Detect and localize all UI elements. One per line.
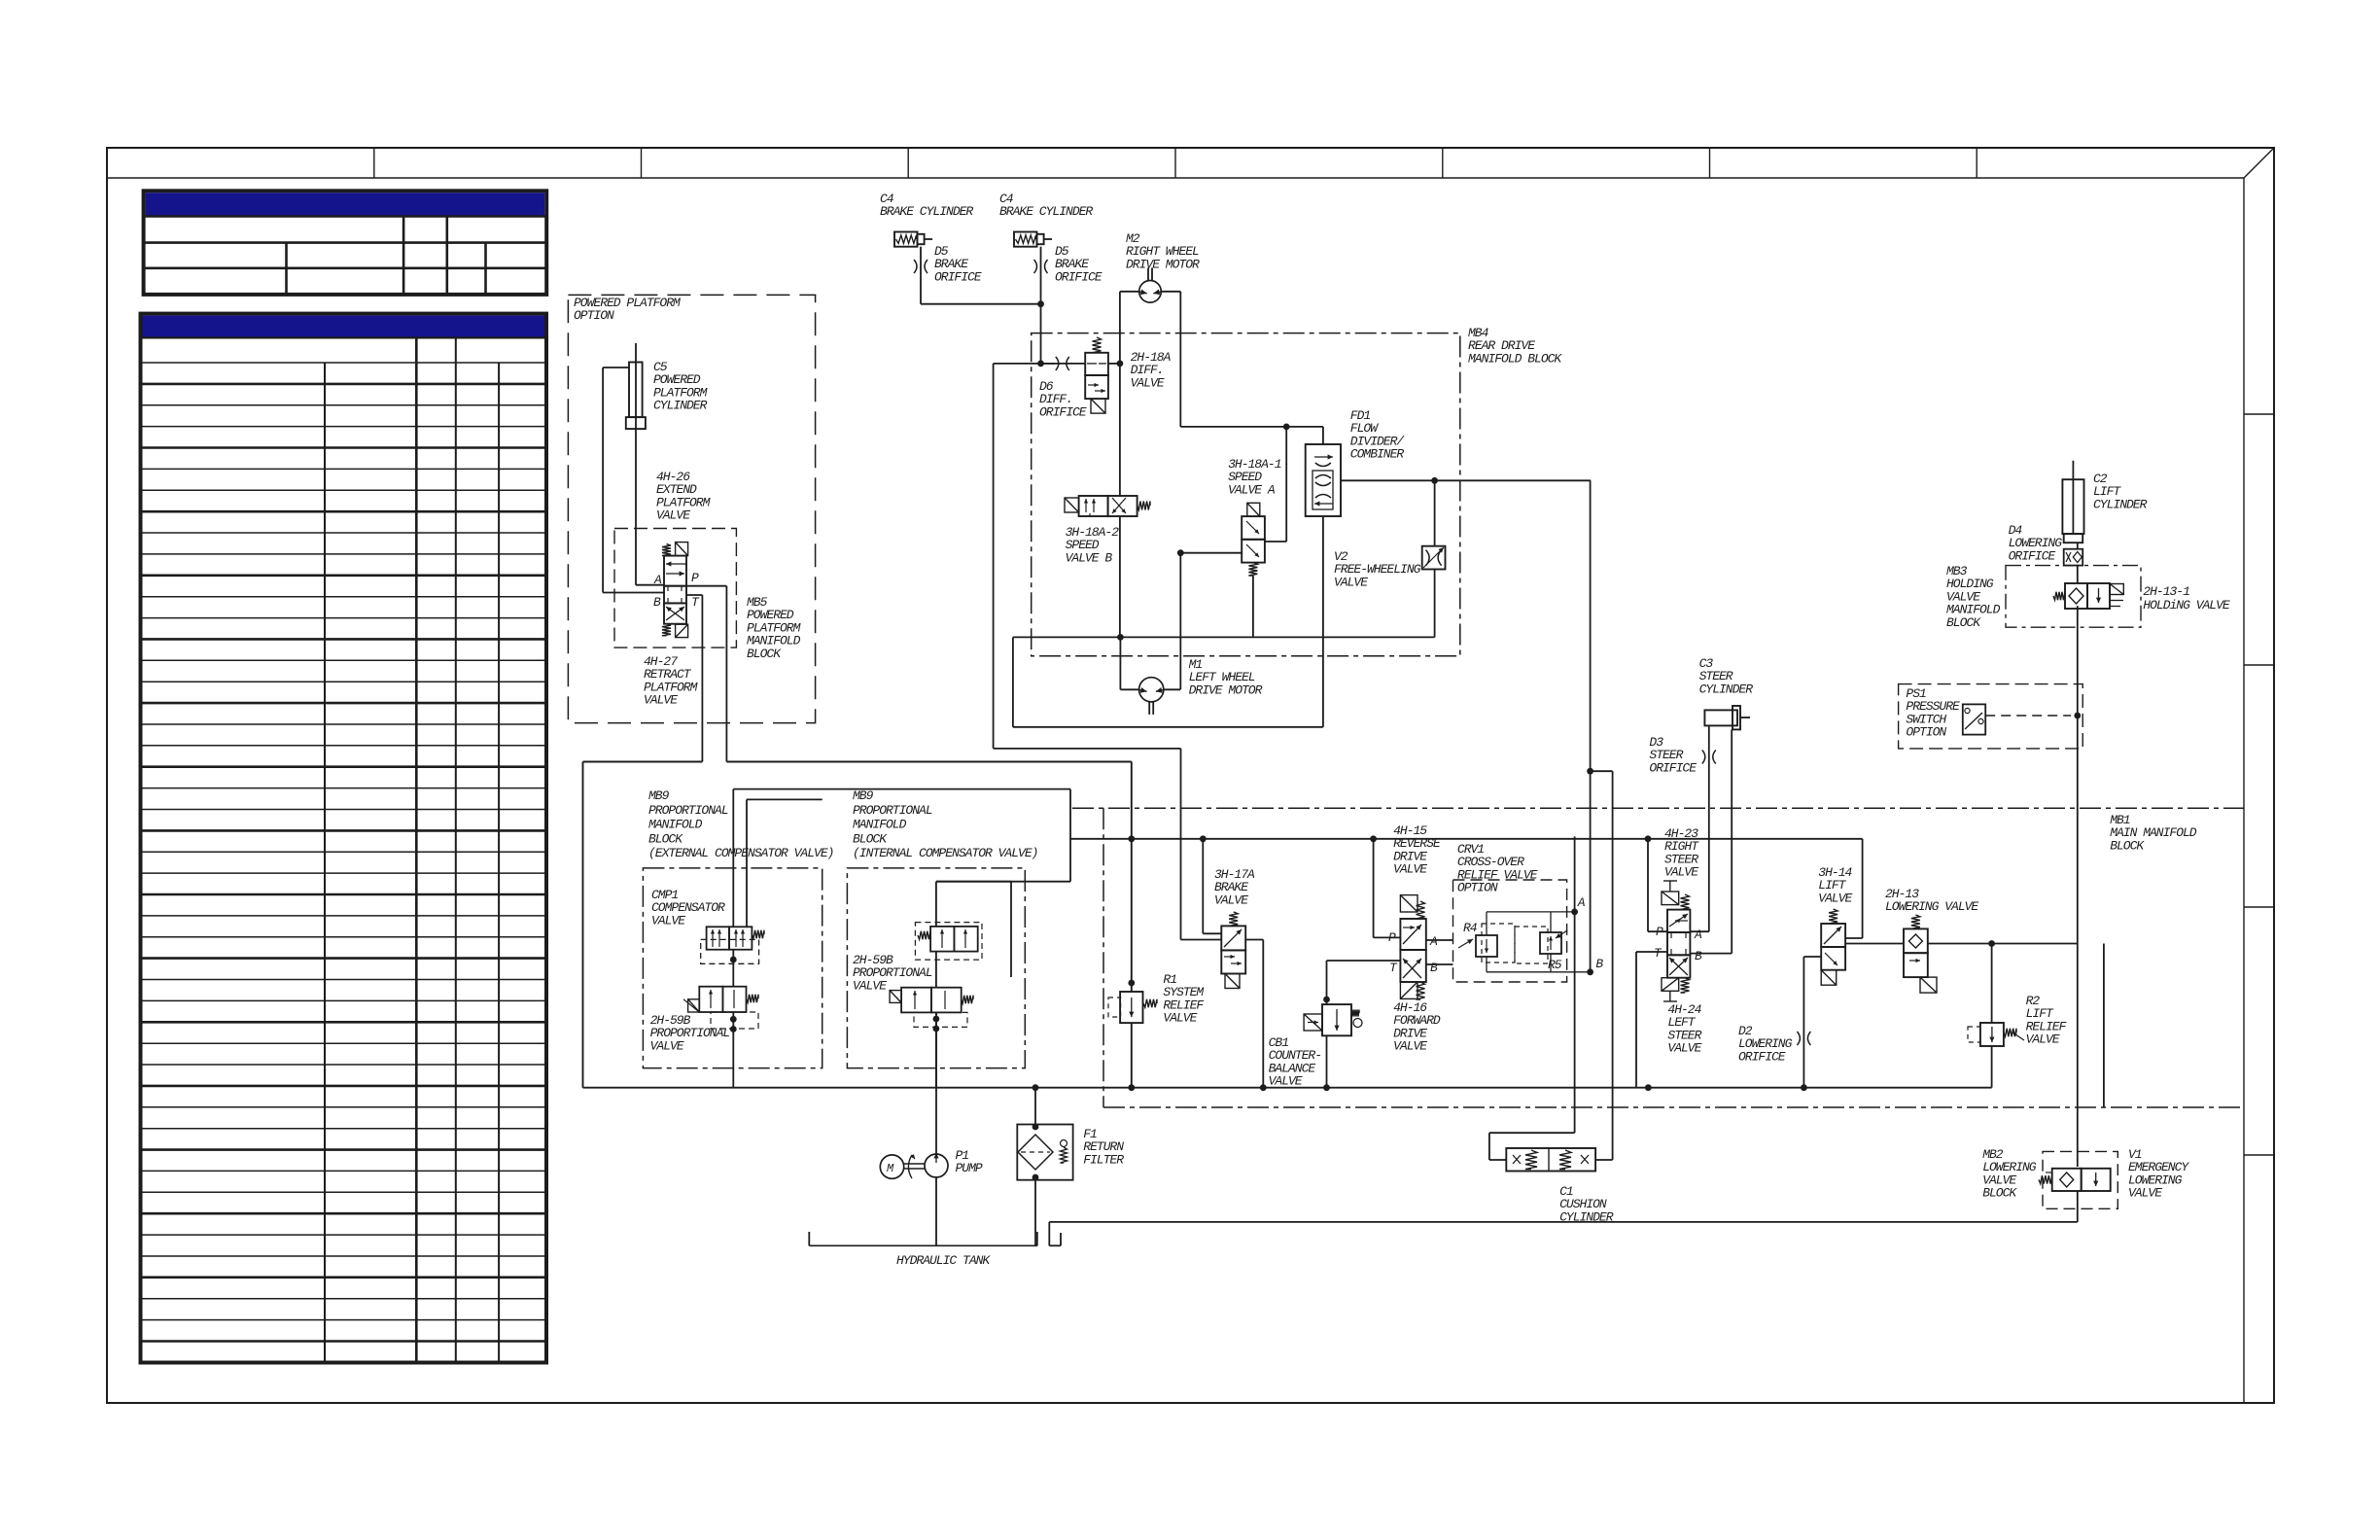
svg-text:LOWERING VALVE: LOWERING VALVE (1885, 899, 1978, 914)
svg-text:BLOCK: BLOCK (853, 831, 888, 846)
orifice D4 LOWERING ORIFICE (2009, 523, 2083, 566)
wire pressure rail (1070, 838, 1863, 840)
orifice D5 (left) (914, 244, 982, 284)
junction trunk at 2H-18A (1117, 361, 1124, 367)
valve 2H-59B proportional (external block) (683, 987, 758, 1029)
wire 4H-15 A to CRV1 (1426, 939, 1453, 941)
wire 2H-59B down to bus (732, 1012, 734, 1088)
junction rail R1 (1128, 835, 1135, 842)
manifold block MB4 dash-dot box (1032, 333, 1460, 656)
svg-text:OPTION: OPTION (1906, 725, 1946, 740)
manifold block MB5 dashed box (614, 529, 736, 648)
wire M2 left port (1120, 291, 1139, 293)
relief valve R2 LIFT RELIEF VALVE (1968, 994, 2067, 1047)
motor M for pump (880, 1154, 915, 1178)
valve 4H-26/4H-27 platform valve body (664, 556, 686, 624)
wire supply loop around proportional blocks (582, 762, 584, 1088)
svg-text:VALVE: VALVE (650, 1038, 684, 1053)
spring on 4H-24 (1681, 978, 1690, 993)
svg-text:A: A (1429, 934, 1438, 949)
svg-text:B: B (1430, 961, 1438, 975)
svg-text:MB9: MB9 (853, 788, 874, 803)
svg-text:P: P (691, 571, 699, 585)
svg-text:MANIFOLD: MANIFOLD (648, 818, 703, 832)
svg-text:VALVE: VALVE (1334, 575, 1368, 589)
valve CMP1 compensator (701, 927, 764, 963)
hydraulic tank (809, 1232, 1037, 1268)
orifice D6 DIFF ORIFICE (1039, 357, 1087, 420)
junction brake lines (1037, 300, 1044, 307)
svg-text:PROPORTIONAL: PROPORTIONAL (648, 803, 728, 818)
svg-text:MB9: MB9 (648, 788, 670, 803)
svg-text:A: A (1577, 895, 1586, 910)
wire C5 rod to valve (635, 418, 637, 585)
cylinder C5 POWERED PLATFORM CYLINDER (626, 343, 708, 429)
svg-text:MANIFOLD: MANIFOLD (853, 818, 907, 832)
svg-text:DRIVE MOTOR: DRIVE MOTOR (1189, 682, 1263, 697)
wire CRV1 rails (1486, 912, 1487, 935)
svg-text:2H-13-1: 2H-13-1 (2143, 584, 2189, 599)
cylinder C1 CUSHION CYLINDER (1506, 1148, 1613, 1224)
wire main return bus (583, 1087, 1992, 1089)
junction D2 at bus (1801, 1084, 1807, 1091)
solenoid on 3H-18A-2 (1065, 498, 1079, 512)
valve 4H-23/4H-24 steer valve stack (1667, 910, 1690, 978)
cross-over relief valve option CRV1 dashed box (1453, 842, 1567, 982)
wire M2 right down / across to FD1 (1179, 292, 1181, 427)
svg-text:OPTION: OPTION (1457, 881, 1498, 895)
spring on 3H-18A-1 (1248, 563, 1257, 576)
solenoid on 4H-15 (1400, 895, 1417, 912)
valve 2H-59B top (internal block) (915, 923, 982, 961)
wire return line y=655 (1013, 636, 1435, 638)
svg-text:B: B (1695, 949, 1702, 963)
wire trunk M2-left down to M1 node (1119, 292, 1121, 496)
wire R2 bottom to bus end (1991, 1046, 1993, 1088)
valve V2 FREE-WHEELING VALVE (1334, 546, 1446, 590)
svg-text:VALVE: VALVE (1163, 1011, 1197, 1026)
svg-text:BLOCK: BLOCK (2110, 838, 2145, 853)
svg-text:A: A (653, 573, 662, 587)
spring on 4H-23 (1681, 894, 1690, 910)
junction rail brake valve (1200, 835, 1207, 842)
wire C5 left loop to valve A (603, 367, 629, 368)
junction filter at bus (1032, 1084, 1039, 1091)
wire pump suction to tank (935, 1177, 937, 1245)
svg-text:ORIFICE: ORIFICE (934, 269, 982, 284)
svg-text:VALVE B: VALVE B (1066, 550, 1113, 565)
svg-text:ORIFICE: ORIFICE (2009, 548, 2056, 563)
svg-text:R5: R5 (1548, 958, 1562, 972)
valve 2H-13-1 HOLDING VALVE (2053, 583, 2230, 612)
junction rail steer (1645, 835, 1652, 842)
wire speed valve A bottom (1252, 576, 1254, 637)
junction supply at bus (1128, 1084, 1135, 1091)
flow divider FD1 (1306, 408, 1406, 516)
border frame (107, 148, 2274, 1403)
wire M1 left port (1119, 637, 1121, 689)
svg-text:VALVE: VALVE (1818, 891, 1852, 905)
svg-text:VALVE: VALVE (1214, 892, 1248, 907)
wire D6 line to left drop (1032, 363, 1055, 365)
svg-text:VALVE: VALVE (656, 508, 690, 523)
solenoid on 3H-14 (1821, 970, 1837, 986)
svg-text:ORIFICE: ORIFICE (1649, 760, 1697, 775)
solenoid on 4H-23 (1662, 892, 1679, 905)
wire PS1 dashed link (1985, 715, 2071, 717)
svg-text:OPTION: OPTION (574, 308, 614, 323)
wire FD1 top feed (1322, 427, 1324, 444)
svg-text:CYLINDER: CYLINDER (653, 399, 708, 413)
svg-text:PROPORTIONAL: PROPORTIONAL (853, 803, 932, 818)
wire CB1 bottom to bus (1326, 1035, 1328, 1087)
svg-text:VALVE: VALVE (2128, 1186, 2162, 1201)
valve 3H-17A BRAKE VALVE (1214, 867, 1255, 974)
solenoid on 2H-18A (1091, 399, 1105, 413)
svg-text:HYDRAULIC TANK: HYDRAULIC TANK (896, 1253, 991, 1268)
wire net C vertical to cushion (1612, 771, 1614, 1160)
cylinder C4 BRAKE CYLINDER (left) (880, 192, 973, 247)
junction V2 feed (1431, 477, 1438, 484)
wire pump shaft (904, 1163, 925, 1165)
spring on 3H-14 (1829, 909, 1837, 924)
svg-text:VALVE: VALVE (1393, 1039, 1427, 1054)
solenoid on valve 4H-26 (676, 542, 688, 556)
solenoid on valve 4H-27 (676, 624, 688, 637)
wire second right vertical (2103, 944, 2105, 1108)
pressure switch PS1 symbol (1963, 704, 1985, 734)
orifice D5 (right) (1034, 244, 1102, 284)
svg-text:VALVE: VALVE (853, 978, 887, 993)
svg-text:VALVE: VALVE (651, 913, 685, 927)
cylinder C2 LIFT CYLINDER (2062, 461, 2147, 542)
wire pump pressure up to bus (935, 1012, 937, 1154)
junction at D6 node (1037, 361, 1044, 367)
wire 2H-18A out to trunk (1108, 363, 1120, 365)
wire filter to tank (1034, 1177, 1036, 1245)
svg-text:VALVE: VALVE (1667, 1041, 1701, 1056)
svg-text:B: B (653, 595, 661, 610)
wire CMP1 feed loop (732, 789, 734, 927)
wire CB1 top to 4H-16 (1326, 961, 1328, 1004)
svg-text:HOLDiNG VALVE: HOLDiNG VALVE (2143, 598, 2230, 612)
junction A (1571, 909, 1578, 916)
svg-text:R4: R4 (1463, 921, 1478, 935)
spring on 3H-18A-2 (1137, 502, 1150, 510)
manifold block MB2 dashed box V1 (1982, 1147, 2117, 1208)
pump P1 (925, 1148, 983, 1177)
solenoid on 3H-18A-1 (1247, 503, 1260, 516)
wire cushion right (1595, 1159, 1613, 1161)
wire 4H-15 P feed (1373, 837, 1375, 937)
svg-text:CYLINDER: CYLINDER (2093, 497, 2148, 511)
svg-text:ORIFICE: ORIFICE (1039, 404, 1087, 419)
wire CMP1 down (732, 950, 734, 987)
spring on valve 4H-27 (662, 624, 671, 636)
orifice D2 LOWERING ORIFICE (1738, 1024, 1810, 1064)
motor M1 LEFT WHEEL DRIVE MOTOR (1138, 657, 1263, 715)
counterbalance valve CB1 (1269, 1004, 1362, 1089)
junction B (1587, 968, 1593, 975)
wire M1 right port (1164, 688, 1181, 690)
wire V2 vertical (1434, 480, 1436, 545)
manifold block MB9 dash-dot box (internal) (847, 868, 1025, 1068)
spring on valve 4H-26 (662, 544, 671, 556)
wire internal block valves (935, 952, 937, 988)
wire 4H-23 P from rail (1647, 837, 1649, 931)
spring on 2H-13 (1911, 915, 1920, 928)
cylinder C4 BRAKE CYLINDER (right) (999, 192, 1093, 247)
manifold block MB3 dash-dot box (2006, 566, 2141, 628)
valve 3H-14 LIFT VALVE (1821, 924, 1845, 970)
wire speed valve A left port (1180, 552, 1242, 554)
valve 2H-59B bottom (internal block) (890, 988, 973, 1028)
svg-text:BLOCK: BLOCK (747, 647, 782, 661)
svg-text:CYLINDER: CYLINDER (1699, 682, 1754, 696)
wire internal valve loop (935, 882, 937, 927)
spring on 4H-15 (1417, 901, 1425, 919)
wire bus to filter (1034, 1088, 1036, 1127)
wire 2H-13 out to R2 node (1928, 943, 2078, 945)
wire platform P to supply (686, 594, 702, 596)
solenoid on 4H-16 (1400, 982, 1417, 998)
junction PS1 node (2074, 713, 2081, 719)
wire D2 drop (1802, 957, 1804, 1088)
junction 3H-17A at bus (1260, 1084, 1267, 1091)
svg-text:DRIVE MOTOR: DRIVE MOTOR (1126, 257, 1200, 271)
svg-text:B: B (1595, 957, 1603, 971)
svg-text:VALVE: VALVE (1664, 865, 1698, 880)
solenoid on 2H-13 (1920, 977, 1937, 993)
wire 3H-14 left to D2 (1803, 956, 1821, 958)
junction R1 pilot (1128, 980, 1135, 987)
relief valve R5 (1515, 927, 1567, 972)
wire net B vertical from FD1 (1590, 480, 1592, 972)
junction M1 node (1117, 634, 1124, 641)
svg-text:VALVE: VALVE (644, 693, 678, 708)
svg-text:ORIFICE: ORIFICE (1055, 269, 1102, 284)
solenoid on 4H-24 (1662, 978, 1679, 992)
svg-text:VALVE: VALVE (1131, 375, 1165, 390)
svg-text:BLOCK: BLOCK (648, 831, 683, 846)
valve 4H-15/4H-16 drive valve stack (1400, 919, 1425, 982)
svg-text:(EXTERNAL COMPENSATOR VALVE): (EXTERNAL COMPENSATOR VALVE) (648, 846, 833, 860)
dashed box: POWERED PLATFORM OPTION (568, 295, 815, 722)
svg-text:VALVE: VALVE (1269, 1074, 1303, 1089)
valve 3H-18A-1 SPEED VALVE A (1242, 516, 1265, 563)
motor M2 RIGHT WHEEL DRIVE MOTOR (1126, 231, 1200, 302)
wire steer cylinder lines (1708, 725, 1710, 931)
solenoid on 3H-17A (1225, 974, 1240, 989)
wire supply into 2H-18A (1041, 363, 1086, 365)
wire FD1 bottom loop (1322, 516, 1324, 727)
svg-text:VALVE: VALVE (1393, 862, 1427, 877)
svg-text:FILTER: FILTER (1083, 1152, 1124, 1167)
valve 2H-18A DIFF VALVE (1085, 353, 1108, 399)
svg-text:COMBINER: COMBINER (1350, 447, 1405, 462)
manifold block MB1 dash-dot box (1072, 808, 2244, 1107)
junction T at bus (1645, 1084, 1652, 1091)
junction rail 4H-15 (1370, 835, 1377, 842)
junction R2 feed (1988, 940, 1995, 947)
valve 3H-18A-2 SPEED VALVE B (1079, 496, 1137, 516)
spring on 2H-18A (1093, 337, 1102, 353)
junction speed valve A feed (1283, 424, 1290, 431)
svg-text:BLOCK: BLOCK (1946, 615, 1981, 630)
relief valve R1 SYSTEM RELIEF VALVE (1108, 972, 1204, 1026)
wire lift cylinder main vertical (2077, 542, 2079, 549)
filter F1 RETURN FILTER (1017, 1125, 1124, 1180)
cylinder C3 STEER CYLINDER (1699, 656, 1754, 729)
junction B branch (1587, 768, 1593, 775)
wire return line to tank (1049, 1221, 2078, 1223)
wire platform T to supply (686, 585, 726, 587)
wire C4 right trunk down to D6 node (1040, 247, 1042, 364)
spring on 4H-16 (1417, 982, 1425, 999)
svg-text:MANIFOLD BLOCK: MANIFOLD BLOCK (1468, 351, 1562, 366)
wire 3H-14 right port (1845, 937, 1863, 939)
svg-text:BRAKE CYLINDER: BRAKE CYLINDER (880, 204, 973, 219)
wire net A vertical (1574, 836, 1576, 1133)
svg-text:VALVE A: VALVE A (1228, 482, 1276, 497)
svg-text:BRAKE CYLINDER: BRAKE CYLINDER (999, 204, 1093, 219)
svg-text:ORIFICE: ORIFICE (1738, 1049, 1786, 1064)
svg-text:(INTERNAL COMPENSATOR VALVE): (INTERNAL COMPENSATOR VALVE) (853, 846, 1037, 860)
wire FD1 right output (1341, 479, 1591, 481)
orifice D3 STEER ORIFICE (1649, 735, 1715, 775)
relief valve R4 (1458, 921, 1515, 962)
wire 3H-14 to 2H-13 (1845, 943, 1904, 945)
svg-text:BLOCK: BLOCK (1982, 1186, 2017, 1201)
pressure switch option PS1 dashed box (1899, 684, 2083, 749)
wire 4H-24 T to bus (1636, 951, 1667, 953)
valve V1 EMERGENCY LOWERING VALVE (2039, 1147, 2189, 1201)
wire C4 left to junction (920, 247, 922, 304)
wire 4H-15 B (1426, 963, 1453, 965)
svg-text:A: A (1694, 927, 1702, 942)
table: title block upper (144, 191, 547, 295)
manifold block MB9 dash-dot box (external) (643, 868, 822, 1068)
wire left drop to brake valve (994, 748, 1181, 750)
table: parts list (141, 314, 547, 1363)
valve 2H-13 LOWERING VALVE (1904, 928, 1928, 977)
wire M2 right port (1161, 291, 1180, 293)
svg-text:PUMP: PUMP (956, 1161, 983, 1175)
wire 3H-17A out right (1245, 939, 1263, 941)
wire return drop to tank (1048, 1222, 1050, 1245)
wire R2 top (1991, 944, 1993, 1024)
spring on 3H-17A (1229, 912, 1238, 926)
svg-text:VALVE: VALVE (2026, 1032, 2060, 1047)
wire cushion left (1489, 1159, 1506, 1161)
